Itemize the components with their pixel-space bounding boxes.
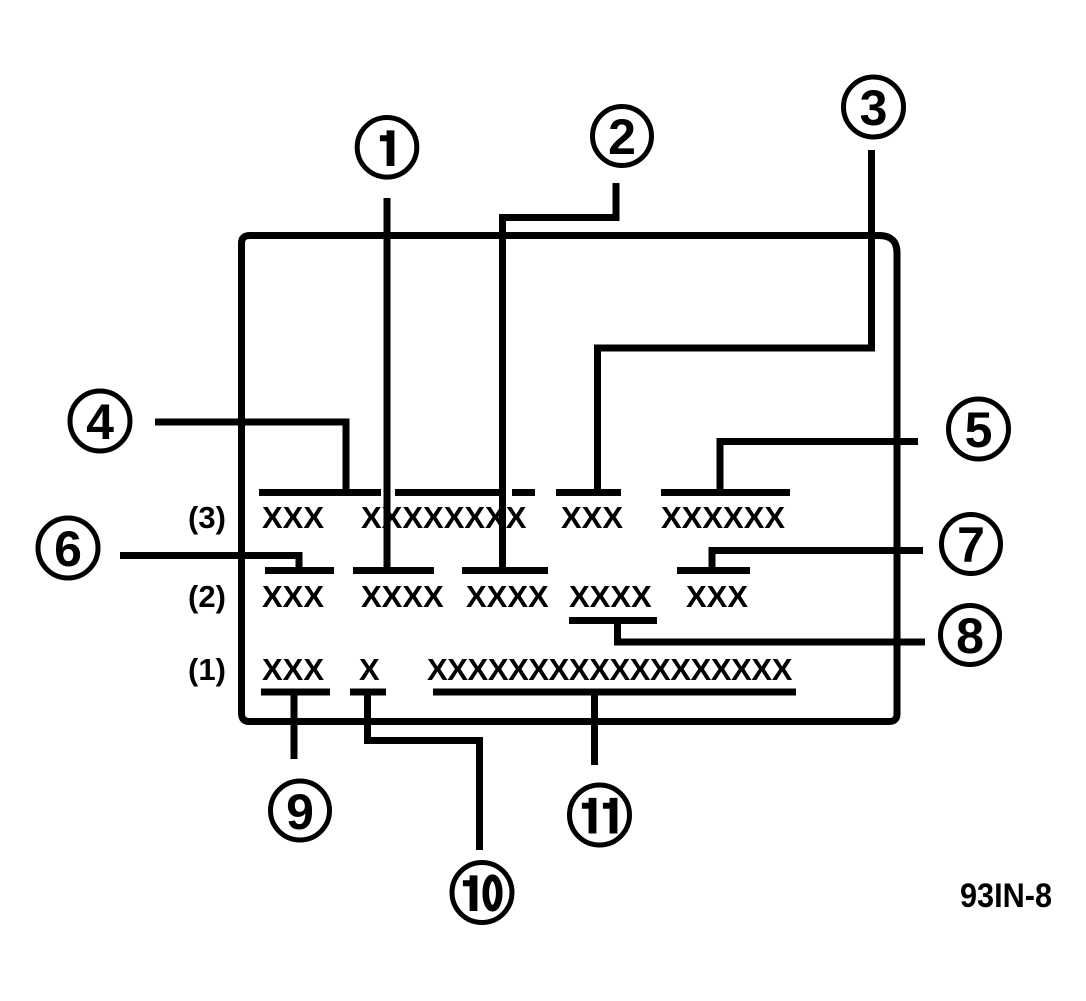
svg-text:4: 4 [86, 394, 114, 450]
leader line 5 [720, 442, 918, 493]
row2 overline b [353, 567, 434, 574]
callout circle 1 [357, 118, 417, 178]
svg-text:(3): (3) [188, 500, 226, 535]
svg-text:93IN-8: 93IN-8 [960, 877, 1052, 915]
svg-text:6: 6 [54, 521, 82, 577]
svg-text:5: 5 [965, 402, 993, 458]
digit 11 [582, 798, 618, 834]
svg-text:9: 9 [286, 784, 314, 840]
leader line 11 [591, 692, 598, 765]
svg-text:7: 7 [957, 517, 985, 573]
svg-text:2: 2 [608, 109, 636, 165]
leader line 4 [155, 422, 346, 492]
leader line 9 [291, 692, 298, 759]
callout circle 5 [949, 399, 1009, 459]
digit 10 [463, 875, 499, 911]
leader line 6 [120, 556, 299, 571]
svg-text:X: X [359, 652, 380, 687]
row3 overline b [395, 489, 506, 496]
svg-text:XXX: XXX [262, 652, 324, 687]
svg-text:XXX: XXX [561, 500, 623, 535]
callout circle 7 [942, 515, 1001, 574]
callout circle 4 [70, 391, 130, 451]
svg-text:XXX: XXX [686, 579, 748, 614]
row1 underline c [433, 689, 796, 696]
svg-text:XXXX: XXXX [569, 579, 652, 614]
svg-text:XXXXXXXXXXXXXXXXXX: XXXXXXXXXXXXXXXXXX [427, 652, 793, 687]
callout circle 11 [570, 785, 630, 845]
svg-text:XXXX: XXXX [466, 579, 549, 614]
leader line 1 [384, 198, 391, 570]
callout circle 6 [38, 518, 98, 578]
callout circle 3 [844, 77, 904, 137]
svg-text:XXXXXX: XXXXXX [661, 500, 785, 535]
svg-text:XXX: XXX [262, 579, 324, 614]
leader line 7 [712, 551, 923, 571]
svg-text:8: 8 [956, 608, 984, 664]
callout circle 10 [452, 863, 512, 923]
callout circle 2 [593, 107, 652, 166]
svg-text:(2): (2) [188, 579, 226, 614]
row1 underline a [261, 689, 330, 696]
row3 overline a [259, 489, 381, 496]
svg-text:XXXX: XXXX [361, 579, 444, 614]
svg-text:XXXXXXXX: XXXXXXXX [361, 500, 527, 535]
row1 underline b [350, 689, 386, 696]
leader line 10 [368, 692, 480, 850]
row3 overline c [512, 489, 535, 496]
row2 overline c [462, 567, 548, 574]
leader line 3 [598, 150, 872, 492]
row3 overline d [556, 489, 621, 496]
leader line 2 [503, 183, 617, 570]
row2 overline d [677, 567, 750, 574]
svg-text:(1): (1) [188, 652, 226, 687]
label outline box [242, 236, 898, 722]
callout circle 8 [941, 606, 1000, 665]
row3 overline e [661, 489, 790, 496]
leader line 8 [618, 621, 926, 643]
row2 underline [569, 617, 657, 624]
svg-text:XXX: XXX [262, 500, 324, 535]
row2 overline a [265, 567, 334, 574]
svg-text:3: 3 [860, 80, 888, 136]
digit 1 [380, 130, 395, 166]
callout circle 9 [271, 781, 330, 840]
